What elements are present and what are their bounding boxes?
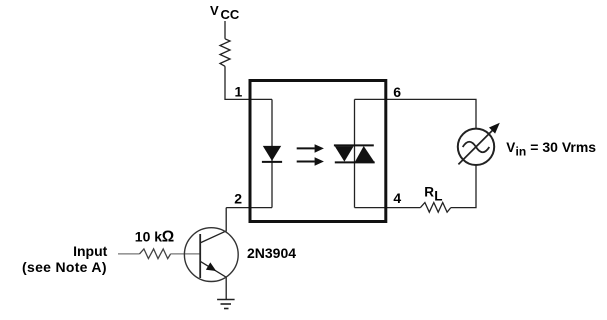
svg-text:L: L [434,188,442,203]
svg-text:CC: CC [221,7,240,22]
svg-text:Ω: Ω [162,228,174,245]
svg-text:= 30 Vrms: = 30 Vrms [530,139,596,155]
svg-text:4: 4 [393,190,401,206]
svg-text:10 k: 10 k [135,228,162,244]
svg-text:2: 2 [234,191,242,207]
svg-text:Input: Input [73,243,108,259]
svg-text:V: V [210,3,219,18]
svg-text:2N3904: 2N3904 [247,245,296,261]
svg-text:R: R [424,184,434,199]
svg-text:6: 6 [393,84,401,100]
svg-text:V: V [506,140,515,155]
svg-text:(see Note A): (see Note A) [22,259,107,275]
svg-text:in: in [516,144,527,158]
svg-text:1: 1 [235,84,243,100]
